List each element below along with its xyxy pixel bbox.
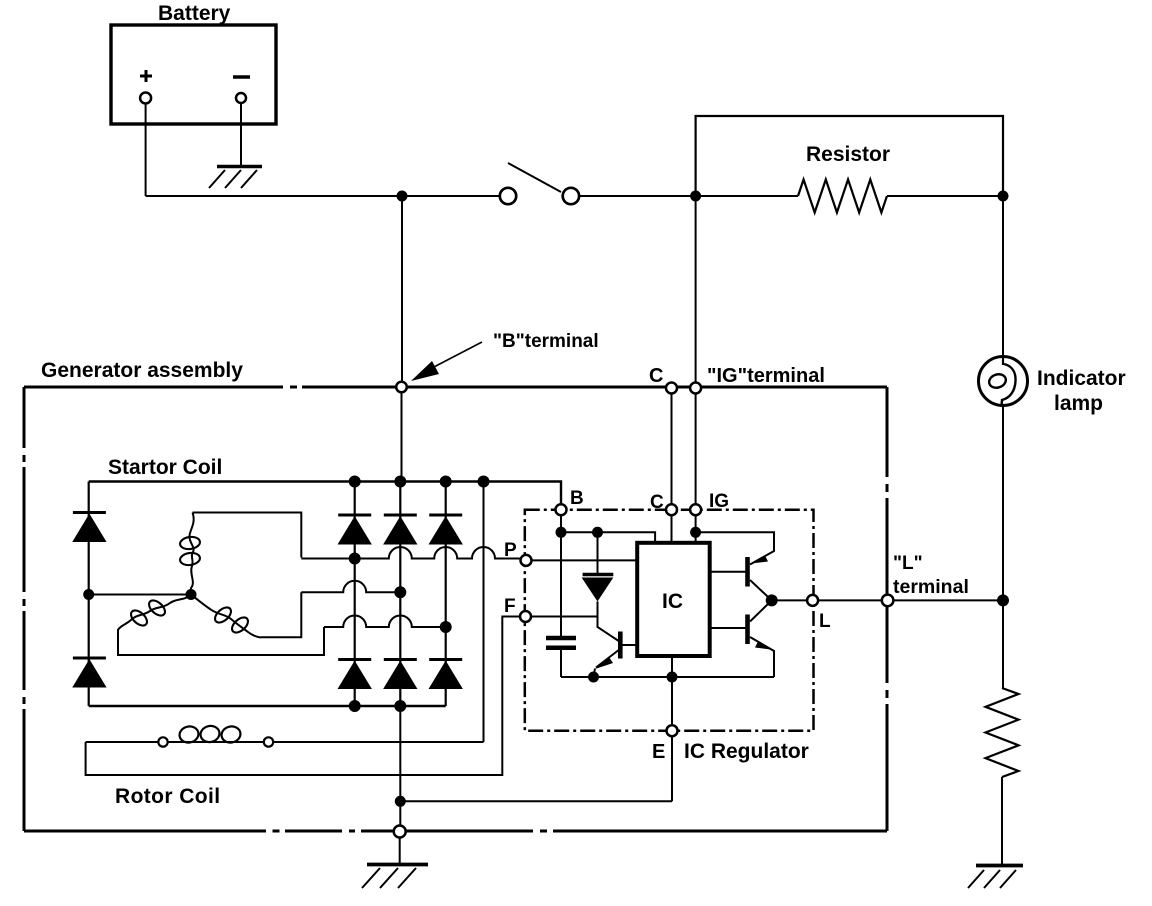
wire L inner [772,599,1003,601]
node zener top [592,527,603,538]
svg-text:Rotor Coil: Rotor Coil [115,785,220,808]
diode column 1 [354,482,356,707]
diode column 3 [445,482,447,707]
svg-text:Resistor: Resistor [806,143,890,166]
node lamp / L line [997,594,1009,606]
terminal C regulator [666,504,677,515]
switch SW1 contacts [500,188,516,204]
node stator center [186,589,197,600]
wire node to resistor [696,195,798,197]
node bottom bus col1 [349,700,361,712]
node bus col1 [349,476,361,488]
diode D7 [384,660,417,689]
node phase1 col1 [349,553,361,565]
wire IG branch to Q2 [696,532,774,564]
battery plus symbol [140,70,152,82]
node switch / resistor / IG [690,191,701,202]
terminal circles [140,93,893,838]
wire main rail from battery to switch [146,195,500,197]
zener diode ZD1 [597,532,599,573]
wire IG drop from node [695,196,697,383]
terminal F [520,611,531,622]
capacitor C1 [546,636,576,641]
node E return [395,796,406,807]
svg-text:IC Regulator: IC Regulator [684,740,809,763]
wire C outer drop [671,393,673,505]
terminal C outer [666,383,677,394]
battery BT1 box [111,25,276,124]
stator coil phase 2 winding [191,595,261,638]
wire phase2 step [261,592,301,637]
svg-text:IG: IG [709,491,729,512]
wire E return line [400,800,672,802]
wire phase1 step [193,513,302,558]
node Q2 Q3 L [766,594,778,606]
terminal E [667,725,678,736]
stator top bus [89,482,561,506]
diode D2 [73,658,106,687]
svg-text:Generator assembly: Generator assembly [41,359,243,382]
indicator lamp LP1 [979,357,1028,406]
ground battery [217,165,262,169]
arrow B terminal pointer [411,342,482,381]
diode D6 [338,660,371,689]
terminal battery minus [236,93,246,103]
generator assembly enclosure (dash-dot box) [24,387,887,831]
wire branch to zener and IC [561,532,655,543]
IC regulator enclosure (dash-dot box) [525,510,814,731]
wire phase3 step [118,627,324,655]
stator coil phase 3 winding [118,595,191,631]
node resistor right [998,191,1009,202]
wire E drop [671,677,673,801]
wire ground drop [399,838,401,865]
svg-text:F: F [504,596,516,617]
wire B inner branch [560,515,562,636]
wire column2 down to ground node [399,706,401,826]
node bus rotor feed [478,476,490,488]
diode D4 [384,515,417,544]
wire battery plus lead [145,104,147,197]
svg-text:B: B [570,488,584,509]
svg-text:C: C [650,492,664,513]
node IC rail [667,672,678,683]
svg-text:IC: IC [662,590,683,613]
node bottom bus col2 [394,700,406,712]
wire switch to node [578,195,696,197]
stator bottom bus [89,705,446,707]
svg-text:"IG"terminal: "IG"terminal [707,365,825,387]
wire B outer to bus [401,392,403,482]
diode leg left column [88,482,90,707]
wire zener to Q1 collector [598,602,619,642]
wire lamp to L node [1002,404,1004,688]
node B branch [556,527,567,538]
svg-text:C: C [649,365,663,387]
stator coil phase 1 winding [189,513,193,595]
diode D1 [73,513,106,542]
wire IC to rail [671,656,673,677]
diode column 2 [399,482,401,707]
wire resistor bypass loop [696,116,1003,196]
wire F inner [531,616,598,618]
wire rotor return to F [86,617,520,776]
wire C inner to IC [671,515,673,543]
terminal L outer [882,595,894,607]
wire IG outer drop [695,393,697,505]
terminal B regulator [556,504,567,515]
svg-text:Battery: Battery [158,2,231,25]
transistor Q3 [745,615,750,645]
terminal L regulator [807,595,818,606]
transistor Q1 [618,632,623,659]
node Q1 emitter rail [588,672,599,683]
terminal B outer [396,382,407,393]
svg-text:Startor Coil: Startor Coil [108,456,222,479]
svg-text:P: P [504,540,517,561]
rotor coil RC [86,741,484,743]
diode D3 [338,515,371,544]
terminal IG regulator [690,504,701,515]
terminal IG outer [690,383,701,394]
switch SW1 lever [508,163,561,192]
terminal rotor coil right [264,737,273,746]
node IG branch [690,527,701,538]
terminal rotor coil left [158,737,167,746]
battery minus symbol [233,75,250,79]
wire regulator bottom rail [561,676,774,678]
svg-text:L: L [819,611,831,632]
wire P inner [532,559,638,561]
diode D8 [429,660,462,689]
wire resistor to right node [887,195,1003,197]
wire rotor feed vertical (bus to rotor coil) [483,482,485,743]
wire phase2 to column2 with hop [301,581,400,593]
node neutral left [83,589,94,600]
IC U1 [637,543,710,656]
wire phase1 to P with hops [301,547,521,559]
node battery rail / B drop [397,191,408,202]
svg-text:E: E [652,741,665,763]
ground right [976,864,1023,868]
node bus col2 [394,476,406,488]
svg-text:"B"terminal: "B"terminal [493,331,599,352]
resistor R1 [798,180,887,213]
ground generator [367,863,428,867]
resistor R2 [986,688,1019,777]
svg-text:terminal: terminal [893,576,969,598]
transistor Q2 [745,557,750,587]
node bus col3 [440,476,452,488]
wire stator neutral [89,594,191,596]
wire R2 to ground [1001,777,1003,865]
svg-text:Indicator: Indicator [1037,367,1126,390]
wire IG inner to IC [695,515,697,543]
wire right vertical to indicator lamp [1002,196,1004,356]
wire B terminal drop [401,196,403,382]
svg-text:lamp: lamp [1054,392,1103,415]
node phase2 col2 [394,586,406,598]
terminal battery plus [140,93,151,104]
wire phase3 to column3 with hops [324,616,446,628]
diode D5 [429,515,462,544]
svg-text:"L": "L" [893,553,923,574]
wire battery minus lead [240,103,242,165]
terminal P [521,555,532,566]
terminal ground outer [394,826,406,838]
wire cap to rail [560,650,562,677]
node phase3 col3 [440,621,452,633]
